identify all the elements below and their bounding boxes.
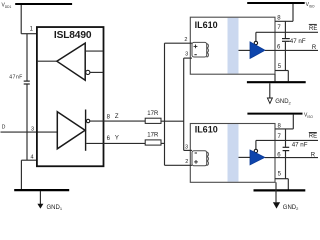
svg-text:17R: 17R	[147, 111, 159, 117]
svg-text:4: 4	[30, 154, 33, 160]
svg-text:2: 2	[184, 37, 187, 43]
svg-text:GND2: GND2	[283, 205, 299, 211]
svg-text:IL610: IL610	[195, 125, 218, 135]
svg-text:R: R	[312, 45, 317, 51]
svg-text:3: 3	[31, 126, 34, 132]
svg-text:47 nF: 47 nF	[292, 141, 308, 148]
svg-text:2: 2	[185, 159, 188, 165]
svg-text:RE: RE	[309, 26, 317, 32]
svg-text:ISL8490: ISL8490	[54, 30, 92, 41]
svg-text:3: 3	[185, 145, 188, 151]
svg-text:GND2: GND2	[275, 99, 291, 105]
svg-text:3: 3	[185, 52, 188, 58]
svg-text:GND1: GND1	[47, 205, 63, 211]
svg-text:Z: Z	[115, 114, 119, 120]
svg-text:Y: Y	[115, 136, 119, 142]
svg-text:R: R	[311, 153, 316, 159]
svg-text:D: D	[2, 124, 6, 130]
svg-text:IL610: IL610	[195, 20, 218, 30]
svg-text:47 nF: 47 nF	[290, 38, 306, 45]
svg-text:RE: RE	[309, 134, 317, 140]
svg-text:17R: 17R	[147, 132, 159, 138]
svg-text:47nF: 47nF	[9, 75, 23, 81]
